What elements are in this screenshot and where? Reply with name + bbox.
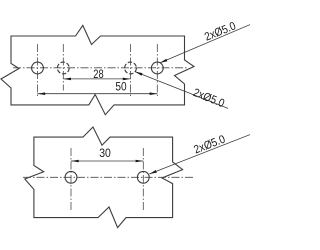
dimension 30 left arrow bbox=[71, 160, 79, 163]
hole H3 vertical centerline bbox=[130, 44, 132, 96]
leader to hole H4 arrow bbox=[160, 59, 167, 63]
leader to hole H3 arrow bbox=[135, 72, 143, 76]
leader to hole H4 line bbox=[160, 25, 250, 63]
hole B1 (solid) bbox=[65, 171, 77, 183]
hole B2 vertical centerline bbox=[142, 148, 144, 211]
dimension 28 left arrow bbox=[63, 78, 71, 81]
hole H3 (hidden, dashed) bbox=[125, 62, 137, 74]
dimension 50 line bbox=[38, 93, 158, 95]
hole H2 (hidden, dashed) bbox=[57, 62, 69, 74]
hole H2 vertical centerline bbox=[62, 44, 64, 91]
dimension 30 line bbox=[71, 160, 143, 162]
plate A horizontal centerline bbox=[13, 67, 187, 69]
dimension 30 right arrow bbox=[136, 160, 144, 163]
svg-text:28: 28 bbox=[93, 69, 103, 81]
hole B1 vertical centerline bbox=[70, 148, 72, 211]
leader to hole B2 line bbox=[149, 135, 250, 174]
plate A outline (top view with break lines) bbox=[1, 25, 194, 114]
hole H4 vertical centerline bbox=[156, 44, 158, 96]
plate B outline (bottom view with break lines) bbox=[25, 127, 183, 228]
dimension 28 line bbox=[63, 78, 130, 80]
hole H4 (solid) bbox=[151, 62, 163, 74]
svg-text:30: 30 bbox=[99, 148, 111, 160]
plate B horizontal centerline bbox=[23, 176, 193, 178]
dimension 28 right arrow bbox=[123, 78, 131, 81]
hole B2 (solid) bbox=[137, 171, 149, 183]
svg-text:50: 50 bbox=[115, 82, 126, 94]
hole H1 vertical centerline bbox=[37, 44, 39, 96]
hole H1 (solid) bbox=[32, 62, 44, 74]
dimension 50 right arrow bbox=[150, 92, 158, 95]
dimension 50 left arrow bbox=[38, 92, 46, 95]
leader to hole B2 arrow bbox=[149, 170, 157, 174]
leader to hole H3 line bbox=[135, 72, 228, 109]
